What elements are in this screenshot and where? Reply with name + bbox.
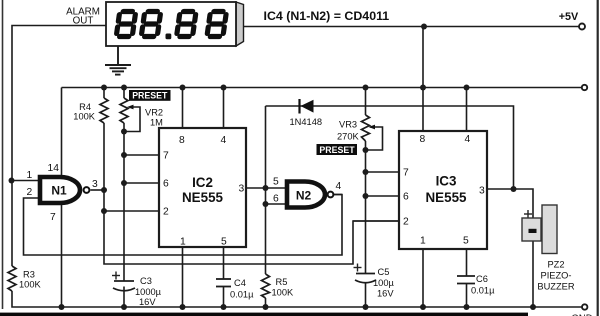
svg-text:16V: 16V	[377, 289, 394, 299]
svg-text:PRESET: PRESET	[132, 91, 168, 101]
svg-text:1: 1	[420, 236, 426, 247]
svg-text:IC4 (N1-N2) = CD4011: IC4 (N1-N2) = CD4011	[264, 9, 390, 23]
svg-text:4: 4	[465, 134, 471, 145]
svg-text:IC3: IC3	[436, 173, 457, 188]
svg-text:VR3: VR3	[339, 120, 357, 130]
svg-text:14: 14	[48, 163, 60, 174]
svg-text:100µ: 100µ	[373, 278, 395, 288]
svg-text:0.01µ: 0.01µ	[471, 286, 495, 296]
svg-text:N1: N1	[51, 184, 67, 198]
svg-text:N2: N2	[296, 189, 312, 203]
svg-text:IC2: IC2	[192, 175, 213, 190]
svg-text:7: 7	[403, 168, 409, 179]
svg-text:4: 4	[336, 181, 342, 192]
svg-text:2: 2	[403, 217, 409, 228]
svg-text:+5V: +5V	[559, 11, 579, 23]
svg-text:1N4148: 1N4148	[290, 117, 323, 127]
svg-text:PRESET: PRESET	[319, 145, 355, 155]
svg-text:270K: 270K	[337, 132, 360, 142]
svg-text:3: 3	[239, 184, 245, 195]
svg-text:1000µ: 1000µ	[135, 287, 162, 297]
svg-text:6: 6	[163, 179, 169, 190]
svg-text:3: 3	[92, 179, 98, 190]
svg-text:8: 8	[420, 134, 426, 145]
svg-text:PIEZO-: PIEZO-	[541, 271, 572, 281]
svg-text:5: 5	[273, 177, 279, 188]
svg-text:2: 2	[163, 207, 169, 218]
svg-text:R5: R5	[276, 277, 288, 287]
svg-text:1M: 1M	[150, 118, 163, 128]
svg-text:VR2: VR2	[145, 108, 163, 118]
svg-text:100K: 100K	[272, 288, 295, 298]
svg-text:5: 5	[463, 236, 469, 247]
svg-text:BUZZER: BUZZER	[537, 282, 574, 292]
svg-text:NE555: NE555	[182, 190, 223, 205]
svg-text:PZ2: PZ2	[547, 260, 564, 270]
svg-text:R4: R4	[79, 102, 91, 112]
svg-text:8: 8	[179, 135, 185, 146]
svg-text:4: 4	[221, 135, 227, 146]
svg-text:R3: R3	[23, 270, 35, 280]
svg-text:100K: 100K	[73, 112, 96, 122]
svg-text:NE555: NE555	[426, 190, 467, 205]
svg-text:100K: 100K	[19, 280, 42, 290]
svg-text:C5: C5	[378, 267, 390, 277]
svg-text:0.01µ: 0.01µ	[230, 290, 254, 300]
svg-text:7: 7	[163, 151, 169, 162]
svg-text:1: 1	[180, 237, 186, 248]
svg-text:3: 3	[479, 186, 485, 197]
svg-text:5: 5	[221, 237, 227, 248]
svg-text:16V: 16V	[139, 297, 156, 307]
svg-text:2: 2	[27, 187, 33, 198]
svg-text:1: 1	[27, 170, 33, 181]
svg-text:6: 6	[273, 194, 279, 205]
svg-text:OUT: OUT	[73, 15, 94, 26]
svg-text:7: 7	[50, 212, 56, 223]
svg-text:C3: C3	[140, 276, 152, 286]
svg-text:6: 6	[403, 192, 409, 203]
svg-text:C4: C4	[234, 278, 246, 288]
svg-text:C6: C6	[476, 274, 488, 284]
